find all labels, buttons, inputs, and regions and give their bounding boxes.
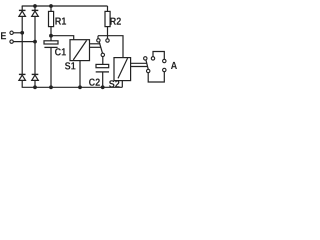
terminal E upper circle (10, 31, 13, 34)
terminal E lower circle (10, 40, 13, 43)
wire top rail (22, 5, 108, 7)
mechanical linkage S1 to contact (90, 43, 101, 45)
wire node to S1 top (51, 36, 74, 40)
wire E lower to D2 (13, 41, 35, 43)
wire bracket c1 to terminal A upper (153, 52, 164, 60)
label A (171, 62, 177, 69)
terminal A upper circle (163, 59, 166, 62)
diode D2 top (32, 6, 39, 42)
diode D1 top-left (19, 6, 26, 33)
junction dot bottom rail at S1 (78, 85, 82, 89)
contact A fixed upper circle (151, 57, 154, 60)
resistor R1 (49, 6, 54, 36)
contact fixed left circle (97, 36, 99, 39)
wire D1 down to D3 (21, 33, 23, 75)
junction dot bottom rail at C1 (49, 85, 53, 89)
label S1 (65, 62, 76, 69)
contact A blade (146, 60, 148, 69)
contact A fixed left circle (144, 57, 147, 60)
terminal E label (1, 32, 6, 39)
capacitor C2 (96, 57, 109, 88)
label S2 (109, 80, 119, 87)
junction dot E lower / D2 (33, 40, 37, 44)
contact blade middle (99, 42, 102, 53)
label R2 (110, 18, 121, 25)
mechanical linkage S2 to contact A (131, 62, 147, 64)
label C1 (55, 48, 66, 55)
label R1 (55, 18, 66, 25)
node dot on top rail at R1 (49, 4, 53, 8)
resistor R2 (105, 6, 110, 39)
junction dot bottom rail at D4 (33, 85, 37, 89)
relay S2 (114, 58, 131, 88)
contact fixed right circle fed by R2 (106, 39, 109, 42)
contact pivot circle middle (101, 53, 104, 56)
diode D4 bottom (32, 42, 39, 88)
contact A pivot circle (147, 69, 150, 72)
capacitor C1 (44, 36, 58, 88)
wire E upper to D1 (13, 32, 22, 34)
junction dot node R1/C1 (49, 34, 53, 38)
relay S1 (70, 40, 90, 88)
junction dot E upper / D1 (20, 31, 24, 35)
wire contact feed to S2 top (98, 36, 123, 58)
label C2 (89, 79, 100, 86)
terminal A lower circle (163, 68, 166, 71)
diode D3 bottom-left (19, 74, 26, 87)
node dot on top rail at D2 (33, 4, 37, 8)
wire pivot to terminal A lower (148, 72, 164, 82)
wire bottom rail (22, 86, 123, 88)
junction dot bottom rail at C2 (101, 85, 105, 89)
